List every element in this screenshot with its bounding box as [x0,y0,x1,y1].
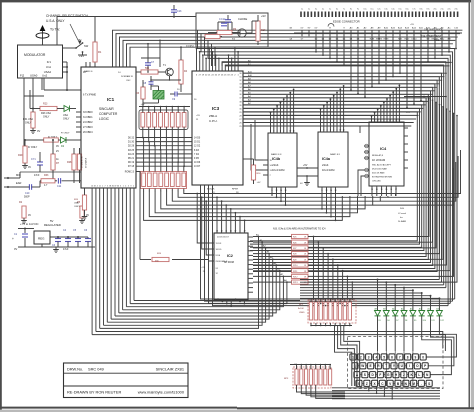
wire bottom runs of left loops [92,335,445,351]
resistor pack array 2 [141,172,187,189]
svg-text:6116 2K RAM: 6116 2K RAM [372,172,385,175]
svg-text:Fr1: Fr1 [47,60,52,64]
svg-text:23B UNDERSIDE: 23B UNDERSIDE [424,29,443,32]
svg-text:F: F [379,373,381,377]
wire address taps IC4 [371,116,373,117]
IC4a top pin numbers [320,127,322,132]
svg-text:WILL ALSO ACCEPT: WILL ALSO ACCEPT [372,164,392,167]
svg-text:11: 11 [271,190,273,192]
svg-text:RAMC.S 8: RAMC.S 8 [330,153,341,156]
resistor R17 [256,21,260,41]
resistor stack RR1-RR9 [292,234,309,238]
wire array2 to data bus [143,138,145,172]
svg-text:1Kx4 RAM: 1Kx4 RAM [322,168,334,172]
svg-text:R26: R26 [293,242,296,244]
wire diode outputs right side entries [426,322,456,357]
svg-text:39: 39 [239,105,241,107]
wire array1 to data bus [142,127,144,138]
capacitor C7 [145,62,151,64]
svg-text:8: 8 [407,355,409,359]
svg-text:D4 23: D4 23 [128,154,135,156]
svg-text:2k RAM: 2k RAM [398,220,406,223]
svg-text:0V: 0V [56,145,59,148]
svg-text:12: 12 [326,190,328,192]
svg-text:8x10K: 8x10K [298,308,304,310]
IC4 left pins circled [364,145,369,147]
svg-text:IC1: IC1 [107,97,115,102]
resistor pack RP1 8x10K [308,300,356,323]
svg-text:D4 D5 D6 D7: D4 D5 D6 D7 [217,237,230,239]
svg-text:I: I [409,364,410,368]
svg-text:SW: SW [84,44,89,48]
wire IC1 bottom bus verticals [91,188,93,335]
svg-text:4: 4 [376,355,378,359]
svg-text:SINCLAIR ZX81: SINCLAIR ZX81 [156,367,184,372]
svg-text:28: 28 [239,115,241,117]
svg-text:D3 25: D3 25 [128,150,135,152]
wire staircase dots right of stack [313,236,315,238]
svg-text:CHOKE: CHOKE [238,17,247,21]
svg-text:14: 14 [221,231,223,233]
svg-text:L: L [418,373,420,377]
svg-text:31 KBD1: 31 KBD1 [83,116,93,119]
svg-text:3: 3 [330,130,331,132]
svg-text:Fr ONLY: Fr ONLY [28,146,38,149]
memory IC4b 2114 RAM [268,133,297,187]
resistor R7 [51,154,55,170]
svg-text:E: E [370,364,372,368]
svg-text:ONLY: ONLY [63,118,70,121]
IC2 left pin labels [209,242,214,244]
svg-text:MODULATOR: MODULATOR [24,53,46,57]
svg-text:R28: R28 [293,254,296,256]
transistor T2 [238,29,246,37]
svg-text:ONLY: ONLY [74,206,80,208]
svg-text:ONLY: ONLY [43,116,50,119]
svg-text:10 D5: 10 D5 [216,249,223,251]
IC4a bottom pins [321,187,323,196]
page border frame [0,0,474,2]
svg-text:38: 38 [239,101,241,103]
svg-text:2: 2 [360,355,362,359]
svg-text:+9V: +9V [261,14,266,18]
svg-text:26 KBD4: 26 KBD4 [83,131,93,134]
svg-text:36: 36 [239,94,241,96]
svg-text:SINCLAIR: SINCLAIR [99,107,114,111]
capacitor C1 [22,233,28,235]
svg-text:30: 30 [239,73,241,75]
resistor R6 [141,70,158,74]
svg-text:18: 18 [94,185,96,187]
svg-text:D2 28: D2 28 [128,146,135,148]
IC4 top pin numbers [371,117,373,122]
svg-text:0V: 0V [37,129,40,133]
wire IC3 top to jogged bus taps [196,49,198,67]
svg-text:3: 3 [128,185,129,187]
resistor R1 [94,38,96,42]
svg-text:0V: 0V [28,214,31,217]
wire osc connections [141,57,160,59]
svg-text:D8: D8 [405,320,407,322]
svg-text:23A COMPONENT: 23A COMPONENT [421,35,442,38]
svg-text:23 USA/UK: 23 USA/UK [85,157,88,168]
svg-text:IC4b: IC4b [272,157,281,161]
wire data bus right extensions [396,150,461,194]
svg-text:ONLY: ONLY [25,122,32,125]
svg-text:+5V: +5V [257,182,261,184]
memory IC2 8K ROM [214,233,248,300]
resistor R28 [72,154,76,170]
svg-text:.: . [421,382,422,386]
svg-text:To T.V.: To T.V. [50,28,60,32]
svg-text:2114: 2114 [272,163,279,167]
wire IC1 top pin stubs [85,62,87,67]
svg-text:27: 27 [244,231,246,233]
svg-text:0 CPU: 0 CPU [186,44,194,48]
wire video line [29,90,31,109]
svg-text:34: 34 [239,87,241,89]
svg-text:17: 17 [234,231,236,233]
IC2 top pin labels [216,228,218,233]
svg-text:560: 560 [145,67,150,70]
svg-text:23: 23 [377,120,379,122]
svg-text:1: 1 [123,185,124,187]
svg-text:1: 1 [102,185,103,187]
resistor R27 [77,154,81,170]
svg-text:D0 32: D0 32 [128,138,135,140]
wire RP3 bottom runs to keyboard [297,385,346,392]
resistor R16 [251,165,255,180]
svg-text:5: 5 [270,131,271,133]
svg-text:36: 36 [117,185,119,187]
power input box [196,13,268,47]
svg-text:D7 18: D7 18 [128,166,135,168]
svg-text:3: 3 [368,355,370,359]
capacitor C3 [55,238,61,240]
svg-text:RFSH A7,8: RFSH A7,8 [372,154,384,157]
svg-text:25 ROMC.S: 25 ROMC.S [216,261,228,263]
svg-text:+5V: +5V [410,24,414,26]
svg-text:9: 9 [415,355,417,359]
svg-text:47nF: 47nF [34,174,40,177]
title block [64,363,189,398]
svg-text:D6 19: D6 19 [128,162,135,164]
svg-text:C13: C13 [177,10,182,13]
svg-text:16: 16 [230,231,232,233]
svg-text:16: 16 [343,130,345,132]
wire drops to IC2 top pins [216,197,218,228]
svg-text:33: 33 [239,84,241,86]
svg-text:Un2: Un2 [42,74,48,78]
svg-text:for: for [400,216,403,219]
svg-text:26: 26 [239,122,241,124]
modulator UM1 [18,45,63,78]
svg-text:USA0: USA0 [30,74,38,78]
svg-text:33 KBD0: 33 KBD0 [83,111,93,114]
svg-text:12 D2: 12 D2 [194,146,201,148]
wire address taps IC4a [320,109,322,127]
svg-text:37: 37 [239,98,241,100]
wire stack outputs to right bundle [314,98,430,237]
svg-text:11: 11 [381,189,383,191]
resistor R5 [80,206,84,218]
svg-text:25: 25 [239,126,241,128]
wire power box internals [205,36,222,38]
svg-text:R213: R213 [293,282,298,284]
svg-text:F(2: F(2 [20,74,25,78]
wire RP1 top stubs [310,299,312,302]
wire mic to IC1 [12,177,20,179]
capacitor C13 [171,9,177,11]
capacitor C5 [75,238,81,240]
svg-text:14: 14 [285,190,287,192]
data bus D0-D7 [136,137,192,139]
wire power input [18,228,34,230]
wire top bus lines to IC3 top [211,44,213,66]
svg-text:31: 31 [239,77,241,79]
processor IC3 Z80A CPU [192,71,243,185]
svg-text:ROMC.S: ROMC.S [125,172,135,174]
svg-text:9: 9 [131,185,132,187]
svg-text:M: M [412,382,415,386]
op-amp IC1 Sinclair Computer Logic [81,67,136,188]
wire address taps IC4b [270,113,272,129]
IC4 bottom pins [371,186,373,196]
svg-text:T: T [385,364,387,368]
memory IC4 1Kx8 RAM [369,122,404,186]
wire IC2 to resistor stack with address labels [253,236,292,238]
svg-text:7 D4: 7 D4 [194,154,200,156]
wire osc area verticals [180,47,182,52]
svg-text:EAR: EAR [16,181,21,185]
wire data bus wrap lines [184,189,396,197]
svg-text:27: 27 [239,119,241,121]
svg-text:6 T.V./FAME: 6 T.V./FAME [83,94,96,97]
svg-text:4: 4 [125,185,126,187]
svg-text:8: 8 [371,120,372,122]
svg-text:13: 13 [371,189,373,191]
svg-text:8 D3: 8 D3 [194,150,200,152]
svg-text:R23: R23 [43,103,48,106]
wire IC4b left pin feeds [255,120,263,160]
svg-text:D5 21: D5 21 [128,158,135,160]
svg-text:15 D1: 15 D1 [194,142,201,144]
svg-text:R1: R1 [98,50,102,54]
svg-text:C11: C11 [57,185,62,188]
svg-text:R211: R211 [293,271,297,273]
capacitor C4 [65,238,71,240]
resistor R3 [141,87,145,99]
svg-text:+: + [12,237,14,241]
svg-text:9 D5: 9 D5 [194,158,200,160]
svg-text:D10: D10 [423,320,426,322]
svg-text:16: 16 [390,189,392,191]
resistor R2 [22,206,26,218]
svg-text:2: 2 [283,131,284,133]
capacitor C11 [57,178,59,184]
IC4 right pins [404,127,408,129]
svg-text:D5: D5 [379,320,381,322]
svg-text:RE-DRAWN BY RON REUTER: RE-DRAWN BY RON REUTER [67,390,121,395]
svg-text:4Kx8 2016 RAM: 4Kx8 2016 RAM [372,168,387,171]
svg-text:0: 0 [323,130,324,132]
svg-text:DCERAM 35: DCERAM 35 [121,75,134,78]
svg-text:0V: 0V [14,247,17,251]
wire key bottom drops [360,386,362,388]
svg-text:7: 7 [399,355,401,359]
svg-text:4: 4 [327,130,328,132]
svg-text:6: 6 [374,120,375,122]
svg-text:U.S.A. ONLY: U.S.A. ONLY [46,19,65,23]
wire last address lines to IC4 [243,114,378,116]
svg-text:R29: R29 [18,154,23,157]
wire R16 top [243,158,254,160]
svg-text:7: 7 [105,185,106,187]
svg-text:LOGIC: LOGIC [99,117,110,121]
edge connector finger strip [300,12,302,18]
keyboard row 1 keys 1-0 [350,354,356,360]
resistor R4 [179,60,183,84]
svg-text:3: 3 [120,185,121,187]
svg-text:CIRCLED: CIRCLED [372,181,381,183]
svg-text:RFSH: RFSH [232,189,238,191]
svg-text:35: 35 [239,91,241,93]
svg-text:IC4: IC4 [380,146,387,151]
svg-text:REGULATED: REGULATED [44,223,61,227]
capacitor C9 [174,92,176,97]
svg-text:29: 29 [239,112,241,114]
wire IC4 left pin feeds [358,170,364,196]
svg-text:14: 14 [335,190,337,192]
wire array1 top rail [139,106,190,108]
svg-text:4: 4 [277,131,278,133]
wire keyboard bottom bus [332,387,440,389]
svg-text:30: 30 [239,108,241,110]
wire A0 A1 from IC3 top to right bundle [222,62,446,288]
svg-text:IC4a: IC4a [322,157,331,161]
svg-text:14: 14 [376,189,378,191]
resistor R31 [31,112,35,128]
svg-text:J: J [403,373,405,377]
wire +5V between RAMs [297,167,318,169]
capacitor CY1 [37,161,43,163]
keyboard outline dashed [348,337,444,389]
svg-text:1Kx4 RAM: 1Kx4 RAM [272,168,284,172]
IC4b bottom pins [271,187,273,196]
crystal X1 6.5MHz [153,91,164,100]
svg-text:COMPUTER: COMPUTER [99,112,118,116]
svg-text:13: 13 [216,231,218,233]
svg-text:R28: R28 [67,161,72,164]
svg-text:500P: 500P [24,196,30,199]
IC3 top pin stubs [196,66,198,71]
wire drops to IC2 left pins [197,194,209,244]
wire top bus jog under power box [198,30,455,299]
wire keyboard row connections [356,356,359,358]
svg-text:2: 2 [393,120,394,122]
svg-text:R210: R210 [293,265,298,267]
svg-text:REG: REG [38,237,45,241]
svg-text:IC3: IC3 [212,106,220,111]
svg-text:24: 24 [395,120,397,122]
svg-text:1: 1 [287,131,288,133]
wire edge connector D drops [315,36,317,52]
svg-text:www.mainbyte.com/ts1000: www.mainbyte.com/ts1000 [138,390,185,395]
svg-text:14 D0: 14 D0 [194,138,201,140]
svg-text:Z80-A: Z80-A [209,114,217,118]
svg-text:D9: D9 [414,320,416,322]
wire RP1 bottom rail [311,325,352,327]
svg-text:2V: 2V [56,150,59,153]
wire diode outputs into key matrix [377,322,379,351]
svg-text:1: 1 [337,130,338,132]
svg-text:SRC 049: SRC 049 [88,367,104,372]
svg-text:Fr ONLY: Fr ONLY [61,132,70,135]
svg-text:21: 21 [398,120,400,122]
svg-text:W: W [361,364,364,368]
svg-text:27 KBD3: 27 KBD3 [83,126,93,129]
capacitor C14 [225,19,231,21]
wire edge connector mid drops [336,36,338,55]
svg-text:17: 17 [339,130,341,132]
svg-text:R212: R212 [293,277,298,279]
svg-text:OSC: OSC [126,80,131,82]
svg-text:3: 3 [107,185,108,187]
IC4b top pin numbers [270,128,272,133]
address bus A0-A15 [222,62,452,66]
svg-text:C: C [219,18,221,21]
wire IC3 bottom pin drops wrap under IC2 to right bundle [201,185,455,299]
svg-text:Un1: Un1 [46,65,52,69]
svg-text:R29: R29 [293,259,296,261]
wire modulator bottom pins [23,78,25,147]
svg-text:D6: D6 [387,320,389,322]
svg-text:D1 30: D1 30 [128,142,135,144]
svg-text:16: 16 [293,131,295,133]
svg-text:D12: D12 [440,320,443,322]
svg-text:1K x8 RAM: 1K x8 RAM [372,158,385,162]
svg-text:0: 0 [422,355,424,359]
svg-text:C.P.U.: C.P.U. [209,119,218,123]
wire keyboard left side entries [335,326,352,387]
svg-text:10 D6: 10 D6 [194,162,201,164]
svg-text:2: 2 [133,185,134,187]
svg-text:4: 4 [383,120,384,122]
svg-text:Φ: Φ [329,26,331,29]
wire RAM data pin taps [271,193,273,195]
svg-text:EDGE CONNECTOR: EDGE CONNECTOR [333,20,360,24]
resistor pack array 1 [139,110,188,130]
svg-text:L2 used: L2 used [398,213,407,215]
clock symbol [328,24,334,27]
svg-text:12: 12 [276,190,278,192]
capacitor C8 [149,81,154,83]
channel select switch [63,47,77,49]
svg-text:D7: D7 [396,320,398,322]
svg-text:USED: USED [299,312,305,314]
edge connector pin line [294,32,462,34]
svg-text:+5V: +5V [303,164,308,167]
svg-text:13: 13 [280,190,282,192]
svg-text:R27: R27 [293,248,296,250]
wire diode taps [377,280,379,311]
svg-text:17: 17 [289,131,291,133]
svg-text:IC2: IC2 [227,254,233,258]
svg-text:D11: D11 [432,320,435,322]
svg-text:CHANNEL SELECT SWITCH: CHANNEL SELECT SWITCH [46,14,88,18]
IC2 right pins to resistor stack [248,236,253,238]
capacitor C6 [85,238,91,240]
